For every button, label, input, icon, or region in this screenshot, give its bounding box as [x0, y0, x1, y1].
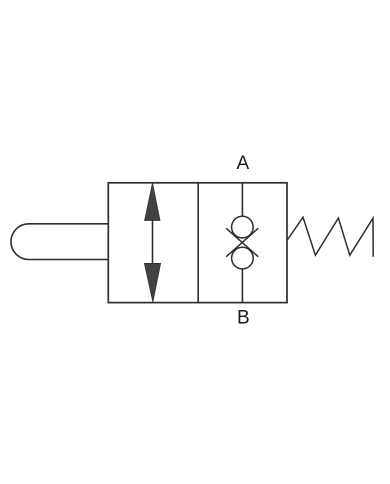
envelope divider — [197, 183, 199, 303]
port line B — [241, 269, 243, 303]
check valve ball bottom — [232, 247, 254, 269]
port line A — [241, 183, 243, 217]
spring return — [287, 217, 373, 257]
check valve ball top — [232, 216, 254, 238]
flow arrow shaft — [152, 218, 154, 266]
plunger actuator — [11, 224, 108, 260]
flow arrow head up — [145, 183, 160, 221]
valve body box — [108, 183, 287, 303]
flow arrow head down — [144, 263, 160, 302]
svg-text:A: A — [236, 153, 249, 174]
svg-text:B: B — [237, 307, 250, 328]
check valve seat X — [226, 228, 258, 256]
